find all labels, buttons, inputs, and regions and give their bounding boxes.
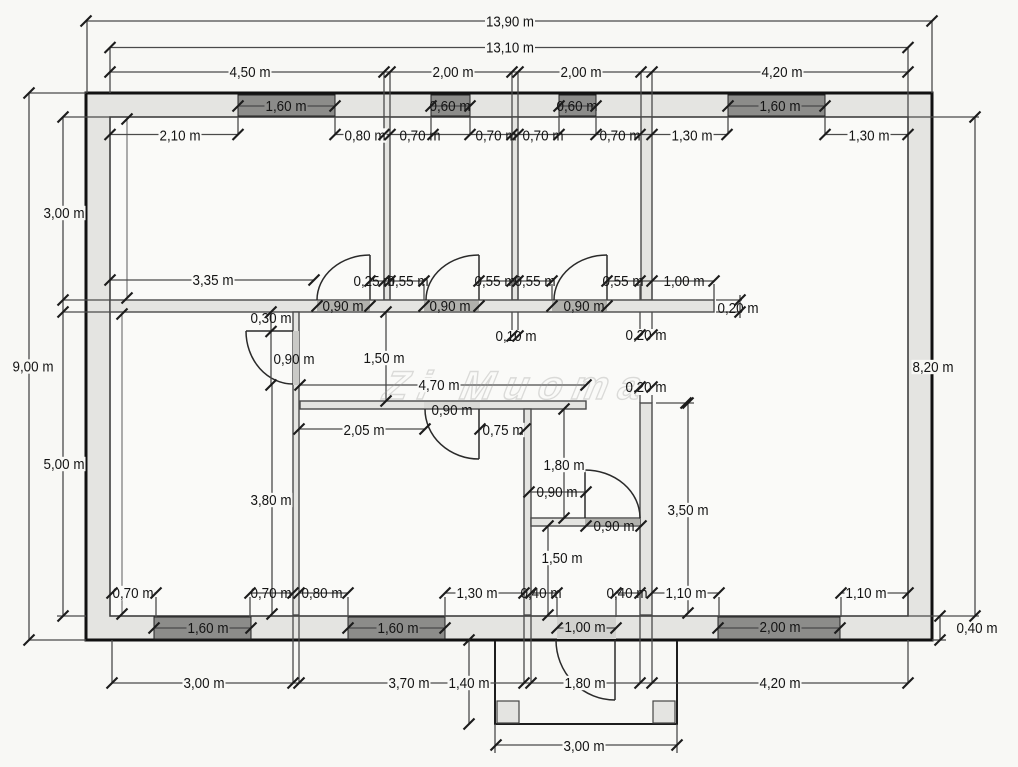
- svg-text:1,10 m: 1,10 m: [666, 586, 707, 602]
- svg-text:9,00 m: 9,00 m: [13, 360, 54, 376]
- svg-text:1,80 m: 1,80 m: [544, 458, 585, 474]
- svg-text:1,50 m: 1,50 m: [364, 351, 405, 367]
- svg-text:1,50 m: 1,50 m: [542, 551, 583, 567]
- svg-text:1,40 m: 1,40 m: [449, 676, 490, 692]
- svg-text:4,20 m: 4,20 m: [762, 65, 803, 81]
- svg-text:4,70 m: 4,70 m: [419, 378, 460, 394]
- svg-text:2,00 m: 2,00 m: [760, 620, 801, 636]
- svg-text:0,20 m: 0,20 m: [626, 328, 667, 344]
- svg-text:0,90 m: 0,90 m: [537, 485, 578, 501]
- svg-text:2,00 m: 2,00 m: [433, 65, 474, 81]
- svg-text:1,60 m: 1,60 m: [266, 99, 307, 115]
- svg-text:13,90 m: 13,90 m: [486, 15, 534, 31]
- svg-text:1,80 m: 1,80 m: [565, 676, 606, 692]
- svg-text:0,20 m: 0,20 m: [626, 380, 667, 396]
- svg-text:1,00 m: 1,00 m: [664, 274, 705, 290]
- svg-text:1,30 m: 1,30 m: [849, 129, 890, 145]
- svg-text:3,80 m: 3,80 m: [251, 493, 292, 509]
- svg-text:1,60 m: 1,60 m: [188, 621, 229, 637]
- svg-text:0,55 m: 0,55 m: [475, 274, 516, 290]
- svg-text:3,70 m: 3,70 m: [389, 676, 430, 692]
- svg-text:0,90 m: 0,90 m: [432, 403, 473, 419]
- svg-text:4,50 m: 4,50 m: [230, 65, 271, 81]
- svg-text:2,00 m: 2,00 m: [561, 65, 602, 81]
- svg-text:3,00 m: 3,00 m: [564, 739, 605, 755]
- svg-text:1,60 m: 1,60 m: [378, 621, 419, 637]
- svg-text:4,20 m: 4,20 m: [760, 676, 801, 692]
- svg-text:0,30 m: 0,30 m: [251, 311, 292, 327]
- svg-text:13,10 m: 13,10 m: [486, 41, 534, 57]
- svg-text:0,75 m: 0,75 m: [483, 423, 524, 439]
- svg-text:0,55 m: 0,55 m: [603, 274, 644, 290]
- svg-text:3,50 m: 3,50 m: [668, 503, 709, 519]
- svg-text:0,40 m: 0,40 m: [957, 621, 998, 637]
- svg-text:2,10 m: 2,10 m: [160, 129, 201, 145]
- svg-text:0,90 m: 0,90 m: [323, 299, 364, 315]
- svg-text:0,80 m: 0,80 m: [302, 586, 343, 602]
- svg-text:0,90 m: 0,90 m: [564, 299, 605, 315]
- svg-text:1,60 m: 1,60 m: [760, 99, 801, 115]
- svg-text:5,00 m: 5,00 m: [44, 457, 85, 473]
- svg-text:1,30 m: 1,30 m: [672, 129, 713, 145]
- svg-text:8,20 m: 8,20 m: [913, 360, 954, 376]
- svg-text:0,80 m: 0,80 m: [345, 129, 386, 145]
- svg-text:0,90 m: 0,90 m: [430, 299, 471, 315]
- svg-text:1,10 m: 1,10 m: [846, 586, 887, 602]
- svg-text:0,40 m: 0,40 m: [607, 586, 648, 602]
- svg-text:3,00 m: 3,00 m: [184, 676, 225, 692]
- svg-text:1,00 m: 1,00 m: [565, 620, 606, 636]
- svg-text:0,70 m: 0,70 m: [400, 129, 441, 145]
- svg-text:0,90 m: 0,90 m: [594, 519, 635, 535]
- svg-text:3,35 m: 3,35 m: [193, 273, 234, 289]
- svg-text:0,90 m: 0,90 m: [274, 352, 315, 368]
- svg-text:0,70 m: 0,70 m: [251, 586, 292, 602]
- svg-text:2,05 m: 2,05 m: [344, 423, 385, 439]
- svg-text:3,00 m: 3,00 m: [44, 206, 85, 222]
- svg-text:0,70 m: 0,70 m: [600, 129, 641, 145]
- svg-text:1,30 m: 1,30 m: [457, 586, 498, 602]
- svg-text:0,70 m: 0,70 m: [113, 586, 154, 602]
- svg-text:0,55 m: 0,55 m: [515, 274, 556, 290]
